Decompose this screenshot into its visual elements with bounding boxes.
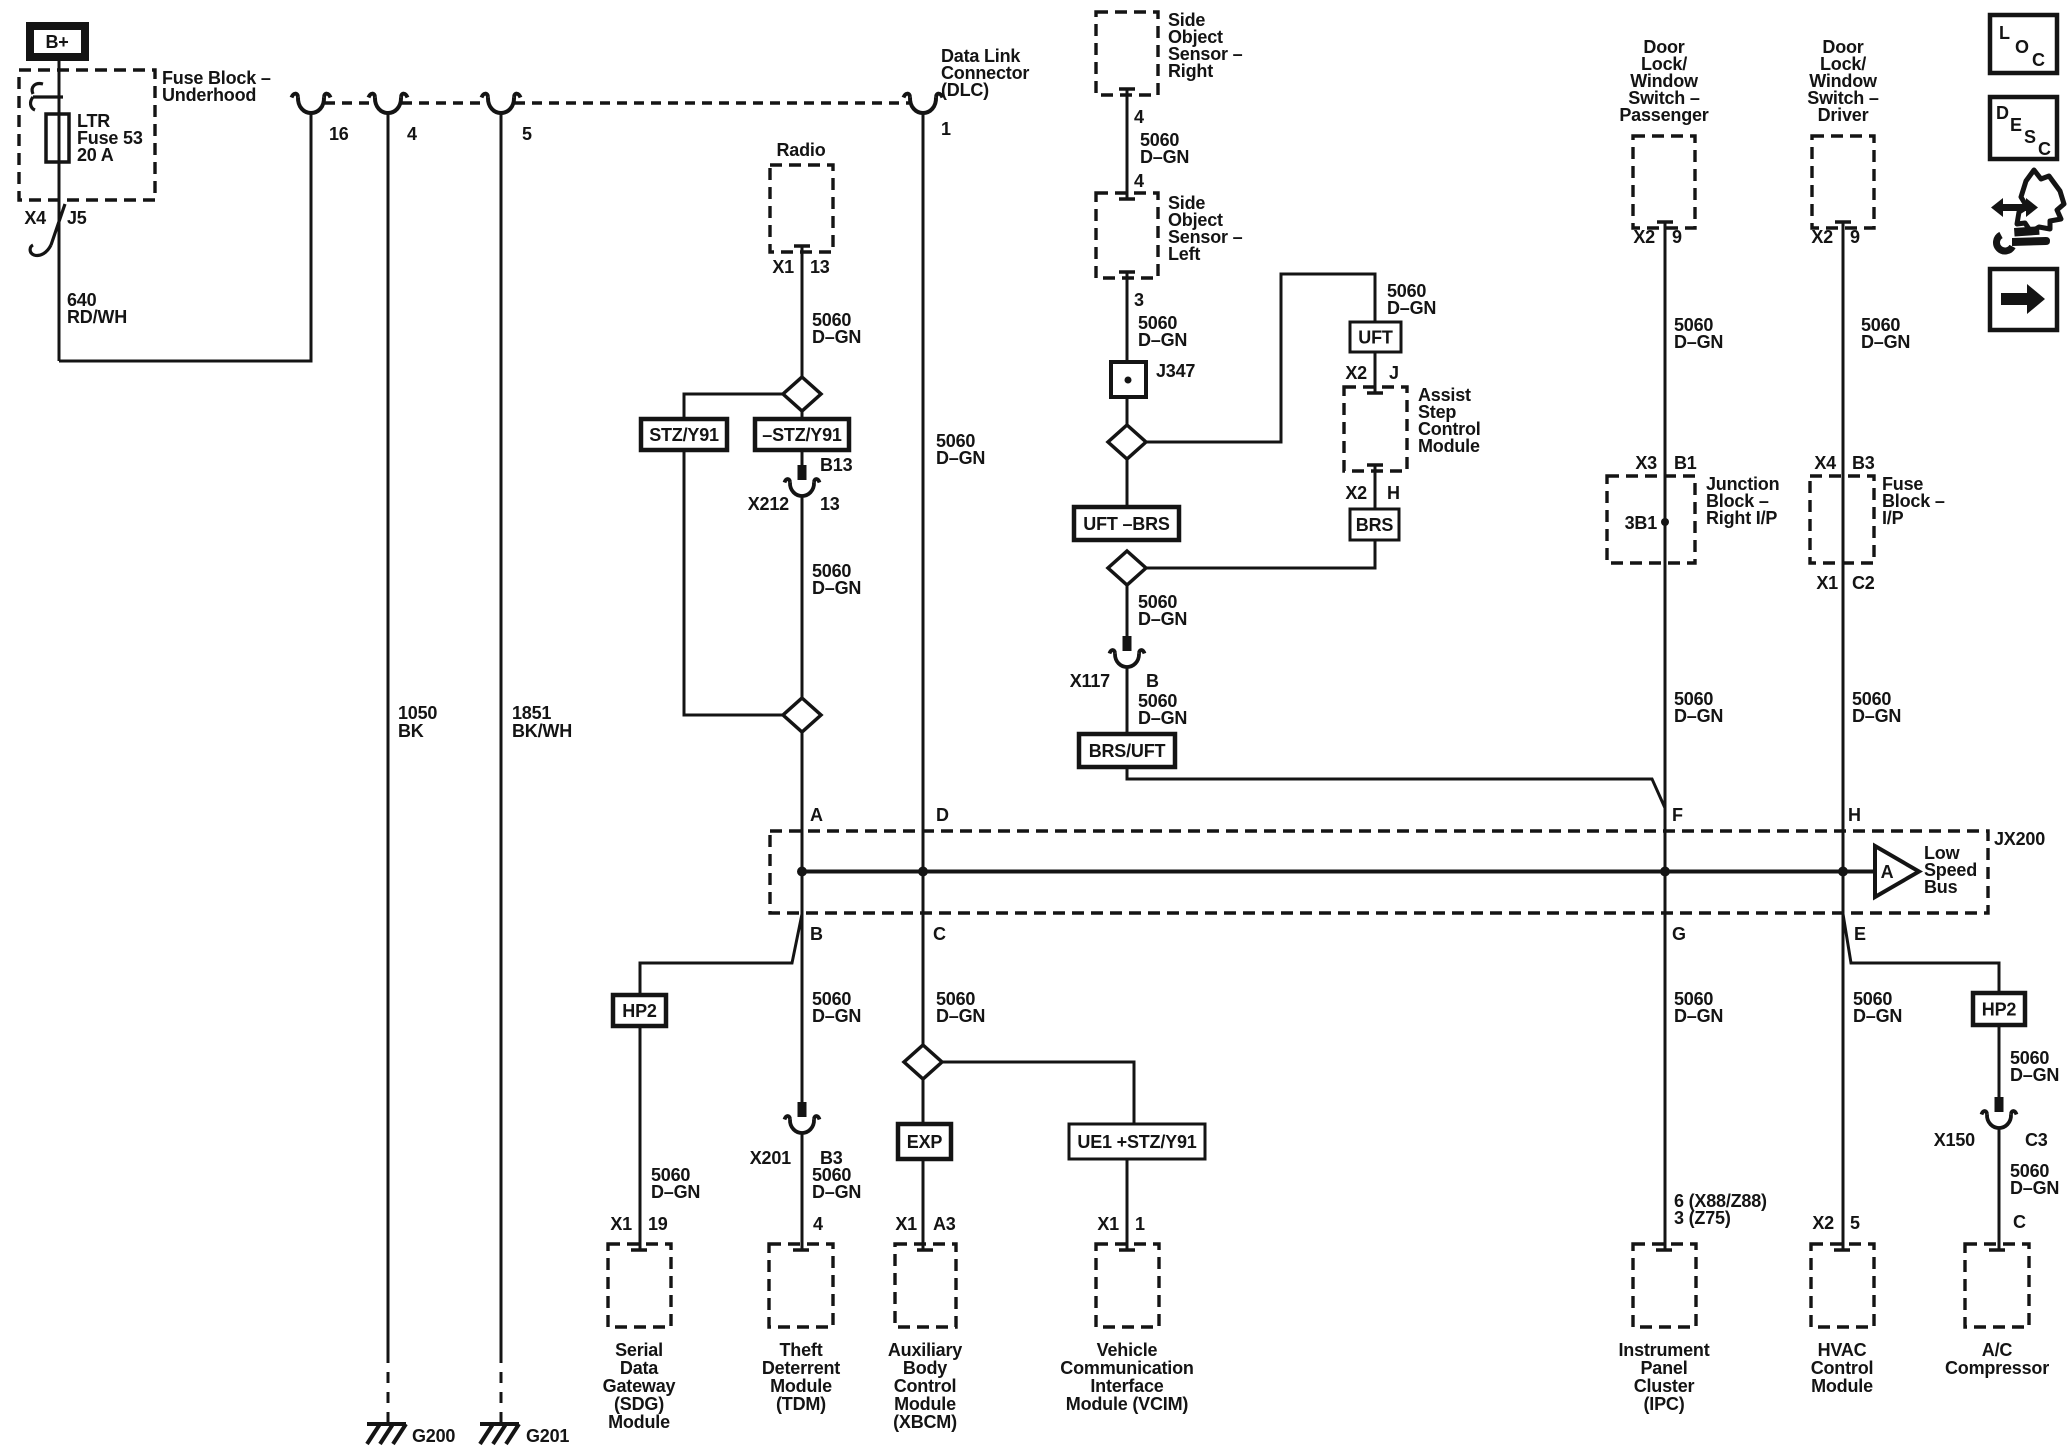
svg-text:C: C xyxy=(2013,1212,2026,1232)
svg-text:J5: J5 xyxy=(67,208,87,228)
svg-text:5: 5 xyxy=(522,124,532,144)
vehicle communication interface module (VCIM) (dashed box) xyxy=(1096,1244,1159,1327)
svg-text:Body: Body xyxy=(903,1358,947,1378)
splice pack J347 xyxy=(1111,362,1146,397)
low speed bus line xyxy=(802,870,1875,874)
auxiliary body control module (XBCM) pin terminal xyxy=(917,1248,933,1252)
wire radio X1-13 down xyxy=(801,246,804,465)
radio (dashed box) xyxy=(770,165,833,252)
svg-text:Deterrent: Deterrent xyxy=(762,1358,840,1378)
svg-text:3B1: 3B1 xyxy=(1625,513,1658,533)
wire to X117 xyxy=(1126,585,1129,636)
wire C to XBCM xyxy=(922,1079,925,1250)
net box -STZ/Y91 xyxy=(755,419,849,450)
svg-text:A/C: A/C xyxy=(1982,1340,2013,1360)
svg-text:1: 1 xyxy=(941,119,951,139)
junction dot H xyxy=(1838,867,1848,877)
svg-text:A3: A3 xyxy=(933,1214,956,1234)
net box UFT xyxy=(1350,322,1401,352)
svg-text:19: 19 xyxy=(648,1214,668,1234)
dashed harness line segment 5-DLC xyxy=(515,101,909,105)
svg-text:B: B xyxy=(1146,671,1159,691)
svg-text:UFT –BRS: UFT –BRS xyxy=(1083,514,1170,534)
svg-text:L: L xyxy=(1999,23,2010,43)
svg-text:D–GN: D–GN xyxy=(1852,706,1901,726)
net box BRS xyxy=(1350,509,1399,540)
svg-text:4: 4 xyxy=(407,124,417,144)
icon LOC box xyxy=(1990,15,2057,73)
wire BRS/UFT over to F line xyxy=(1127,767,1665,808)
svg-text:E: E xyxy=(2010,115,2022,135)
svg-text:EXP: EXP xyxy=(907,1132,943,1152)
svg-text:HVAC: HVAC xyxy=(1818,1340,1867,1360)
splice diamond C line xyxy=(904,1045,942,1079)
ground G201 xyxy=(480,1424,569,1446)
svg-text:X201: X201 xyxy=(750,1148,791,1168)
svg-text:D–GN: D–GN xyxy=(1674,1006,1723,1026)
svg-text:16: 16 xyxy=(329,124,349,144)
svg-text:X3: X3 xyxy=(1635,453,1657,473)
net box EXP xyxy=(898,1124,951,1159)
svg-text:B: B xyxy=(810,924,823,944)
svg-text:X1: X1 xyxy=(772,257,794,277)
splice diamond sensor line upper xyxy=(1108,425,1146,459)
wire BRS to diamond xyxy=(1146,540,1375,568)
svg-text:X117: X117 xyxy=(1070,671,1110,691)
svg-text:Interface: Interface xyxy=(1090,1376,1163,1396)
svg-text:H: H xyxy=(1387,483,1400,503)
instrument panel cluster (IPC) (dashed box) xyxy=(1633,1244,1696,1327)
svg-text:D–GN: D–GN xyxy=(2010,1178,2059,1198)
HVAC control module pin terminal xyxy=(1834,1248,1850,1252)
svg-text:3 (Z75): 3 (Z75) xyxy=(1674,1208,1731,1228)
svg-text:X2: X2 xyxy=(1812,1213,1834,1233)
svg-text:B+: B+ xyxy=(45,32,68,52)
svg-text:X1: X1 xyxy=(610,1214,632,1234)
svg-text:Data: Data xyxy=(620,1358,659,1378)
svg-text:1050: 1050 xyxy=(398,703,437,723)
dashed harness line segment 4-5 xyxy=(402,101,487,105)
svg-text:A: A xyxy=(1881,862,1894,882)
connector X117 pin B xyxy=(1110,636,1145,667)
svg-text:1851: 1851 xyxy=(512,703,551,723)
side object sensor - right (dashed box) xyxy=(1096,12,1158,95)
theft deterrent module (TDM) (dashed box) xyxy=(769,1244,833,1327)
svg-text:D–GN: D–GN xyxy=(1138,609,1187,629)
svg-text:G200: G200 xyxy=(412,1426,455,1446)
svg-text:UFT: UFT xyxy=(1358,328,1393,348)
wire X150 to A/C compressor xyxy=(1998,1128,2001,1250)
passenger switch pin terminal xyxy=(1657,220,1673,224)
svg-text:Module: Module xyxy=(608,1412,670,1432)
svg-text:(IPC): (IPC) xyxy=(1644,1394,1685,1414)
A/C compressor (dashed box) xyxy=(1965,1244,2029,1327)
wire B+ feed down from B+ through fuse xyxy=(58,61,61,361)
svg-text:A: A xyxy=(810,805,823,825)
wire H-E main (driver to HVAC) xyxy=(1842,222,1845,1250)
theft deterrent module (TDM) pin terminal xyxy=(793,1248,809,1252)
splice diamond sensor line lower xyxy=(1108,551,1146,585)
side object sensor - left (dashed box) xyxy=(1096,193,1158,278)
svg-text:D–GN: D–GN xyxy=(812,578,861,598)
junction block - right I/P (dashed box) xyxy=(1607,476,1695,563)
wire HP2 to SDG xyxy=(639,1026,642,1250)
svg-text:C: C xyxy=(2038,139,2051,159)
svg-text:Left: Left xyxy=(1168,244,1200,264)
svg-text:Cluster: Cluster xyxy=(1634,1376,1695,1396)
svg-text:–STZ/Y91: –STZ/Y91 xyxy=(762,425,842,445)
icon arrow box xyxy=(1990,269,2057,330)
svg-text:X2: X2 xyxy=(1811,227,1833,247)
wire A-B main down to X201 xyxy=(801,732,804,1102)
SOS right pin terminal xyxy=(1119,87,1135,91)
instrument panel cluster (IPC) pin terminal xyxy=(1656,1248,1672,1252)
svg-text:D–GN: D–GN xyxy=(812,1006,861,1026)
svg-text:D–GN: D–GN xyxy=(1138,708,1187,728)
wire to BRS/UFT xyxy=(1126,667,1129,734)
svg-text:C: C xyxy=(933,924,946,944)
svg-text:20 A: 20 A xyxy=(77,145,114,165)
dashed harness line segment 16-4 xyxy=(325,101,374,105)
svg-text:X212: X212 xyxy=(748,494,789,514)
junction dot 3B1 xyxy=(1661,518,1669,526)
net box UE1 +STZ/Y91 xyxy=(1069,1124,1205,1159)
svg-text:Control: Control xyxy=(1811,1358,1874,1378)
fuse LTR Fuse 53 20 A (body) xyxy=(46,114,69,162)
junction dot A xyxy=(797,867,807,877)
svg-text:BRS/UFT: BRS/UFT xyxy=(1089,741,1166,761)
assist module bottom pin terminal xyxy=(1367,463,1383,467)
svg-text:Vehicle: Vehicle xyxy=(1097,1340,1158,1360)
svg-text:J347: J347 xyxy=(1156,361,1195,381)
wire UE1 to VCIM xyxy=(1126,1159,1129,1250)
svg-text:Panel: Panel xyxy=(1640,1358,1687,1378)
wire STZ/Y91 left branch xyxy=(684,394,784,715)
svg-text:C3: C3 xyxy=(2025,1130,2048,1150)
svg-text:HP2: HP2 xyxy=(622,1001,657,1021)
bus arrow triangle A xyxy=(1875,846,1919,897)
svg-text:G: G xyxy=(1672,924,1686,944)
wire 5060 D-GN below X212 xyxy=(801,496,804,698)
svg-text:C2: C2 xyxy=(1852,573,1875,593)
svg-text:J: J xyxy=(1389,363,1399,383)
door lock/window switch - driver (dashed box) xyxy=(1812,136,1874,228)
svg-text:9: 9 xyxy=(1850,227,1860,247)
svg-text:Theft: Theft xyxy=(780,1340,823,1360)
svg-text:1: 1 xyxy=(1135,1214,1145,1234)
svg-text:Right: Right xyxy=(1168,61,1213,81)
svg-text:UE1 +STZ/Y91: UE1 +STZ/Y91 xyxy=(1077,1132,1196,1152)
svg-text:D–GN: D–GN xyxy=(2010,1065,2059,1085)
svg-text:4: 4 xyxy=(1134,107,1144,127)
wire HP2 right down xyxy=(1998,1025,2001,1097)
HVAC control module (dashed box) xyxy=(1811,1244,1874,1327)
svg-text:X4: X4 xyxy=(24,208,46,228)
fuse clip symbol (top) xyxy=(31,84,63,110)
svg-text:Gateway: Gateway xyxy=(603,1376,676,1396)
fuse block - underhood (dashed box) xyxy=(19,70,155,200)
svg-text:4: 4 xyxy=(1134,171,1144,191)
SOS left top pin terminal xyxy=(1119,197,1135,201)
svg-text:Module: Module xyxy=(894,1394,956,1414)
svg-text:C: C xyxy=(2032,50,2045,70)
svg-text:X150: X150 xyxy=(1934,1130,1975,1150)
A/C compressor pin terminal xyxy=(1989,1248,2005,1252)
door lock/window switch - passenger (dashed box) xyxy=(1633,136,1695,228)
wire UFT to assist step module xyxy=(1374,352,1377,393)
svg-text:D–GN: D–GN xyxy=(812,327,861,347)
svg-text:X1: X1 xyxy=(895,1214,917,1234)
svg-text:Serial: Serial xyxy=(615,1340,663,1360)
wire 1851 BK/WH dashed tail xyxy=(500,1352,503,1424)
svg-text:Module: Module xyxy=(1418,436,1480,456)
svg-text:G201: G201 xyxy=(526,1426,569,1446)
wire DLC pin1 down (D-C) xyxy=(922,113,925,1045)
net box UFT-BRS xyxy=(1074,507,1179,540)
svg-text:Driver: Driver xyxy=(1818,105,1869,125)
wire B branch to HP2 left xyxy=(640,914,802,995)
assist step control module (dashed box) xyxy=(1344,387,1407,471)
svg-text:X2: X2 xyxy=(1345,483,1367,503)
net box HP2 right xyxy=(1973,993,2025,1025)
svg-text:I/P: I/P xyxy=(1882,508,1904,528)
junction dot D xyxy=(918,867,928,877)
wire branch to UFT xyxy=(1146,274,1375,442)
connector X150 pin C3 xyxy=(1982,1097,2017,1128)
svg-text:X2: X2 xyxy=(1633,227,1655,247)
svg-text:D–GN: D–GN xyxy=(1138,330,1187,350)
svg-text:HP2: HP2 xyxy=(1982,1000,2017,1020)
svg-text:(XBCM): (XBCM) xyxy=(893,1412,957,1432)
vehicle communication interface module (VCIM) pin terminal xyxy=(1119,1248,1135,1252)
connector X212 pin 13 xyxy=(785,465,820,496)
svg-text:Right I/P: Right I/P xyxy=(1706,508,1777,528)
svg-text:B13: B13 xyxy=(820,455,853,475)
wire 1050 BK dashed tail xyxy=(387,1352,390,1424)
driver switch pin terminal xyxy=(1835,220,1851,224)
svg-text:S: S xyxy=(2024,127,2036,147)
svg-text:D–GN: D–GN xyxy=(1853,1006,1902,1026)
svg-text:X4: X4 xyxy=(1814,453,1836,473)
icon DESC box xyxy=(1990,97,2057,159)
svg-text:Instrument: Instrument xyxy=(1618,1340,1709,1360)
svg-text:Passenger: Passenger xyxy=(1619,105,1708,125)
svg-text:D–GN: D–GN xyxy=(936,1006,985,1026)
wire SOS right pin4 to left pin4 xyxy=(1126,89,1129,199)
svg-text:BK: BK xyxy=(398,721,424,741)
wire X201 to TDM xyxy=(801,1133,804,1250)
svg-text:Communication: Communication xyxy=(1060,1358,1193,1378)
wire F-G main (passenger to IPC) xyxy=(1664,222,1667,1250)
svg-text:13: 13 xyxy=(810,257,830,277)
svg-text:B3: B3 xyxy=(1852,453,1875,473)
SOS left bottom pin terminal xyxy=(1119,270,1135,274)
svg-text:D–GN: D–GN xyxy=(1674,332,1723,352)
battery B+ symbol xyxy=(30,26,85,57)
svg-text:D–GN: D–GN xyxy=(1387,298,1436,318)
svg-text:RD/WH: RD/WH xyxy=(67,307,127,327)
radio pin terminal xyxy=(794,244,810,248)
svg-text:D: D xyxy=(1996,103,2009,123)
svg-text:X2: X2 xyxy=(1345,363,1367,383)
wire 640 RD/WH to cup 16 xyxy=(59,113,311,361)
svg-text:F: F xyxy=(1672,805,1683,825)
svg-text:3: 3 xyxy=(1134,290,1144,310)
svg-text:D–GN: D–GN xyxy=(1861,332,1910,352)
svg-text:D–GN: D–GN xyxy=(651,1182,700,1202)
svg-text:X1: X1 xyxy=(1816,573,1838,593)
wire assist module to BRS xyxy=(1374,465,1377,509)
cup connector pin 16 xyxy=(292,94,331,113)
svg-text:Auxiliary: Auxiliary xyxy=(888,1340,962,1360)
svg-text:BRS: BRS xyxy=(1356,515,1394,535)
svg-text:(DLC): (DLC) xyxy=(941,80,989,100)
assist module top pin terminal xyxy=(1367,391,1383,395)
svg-text:X1: X1 xyxy=(1097,1214,1119,1234)
svg-text:Control: Control xyxy=(894,1376,957,1396)
svg-text:Module: Module xyxy=(1811,1376,1873,1396)
svg-text:STZ/Y91: STZ/Y91 xyxy=(649,425,719,445)
svg-text:Radio: Radio xyxy=(776,140,825,160)
svg-text:4: 4 xyxy=(813,1214,823,1234)
svg-text:D: D xyxy=(936,805,949,825)
connector JX200 (dashed box) xyxy=(770,831,1988,913)
svg-text:H: H xyxy=(1848,805,1861,825)
wire SOS left pin3 down xyxy=(1126,272,1129,362)
svg-text:D–GN: D–GN xyxy=(936,448,985,468)
svg-text:E: E xyxy=(1854,924,1866,944)
svg-text:JX200: JX200 xyxy=(1994,829,2045,849)
svg-text:D–GN: D–GN xyxy=(1140,147,1189,167)
svg-text:(TDM): (TDM) xyxy=(776,1394,826,1414)
fuse block - I/P (dashed box) xyxy=(1810,476,1874,563)
svg-text:(SDG): (SDG) xyxy=(614,1394,664,1414)
wire E branch to HP2 right xyxy=(1843,914,1999,993)
svg-text:9: 9 xyxy=(1672,227,1682,247)
wire to UFT-BRS box xyxy=(1126,459,1129,507)
net box STZ/Y91 xyxy=(641,419,727,450)
connector X201 pin B3 xyxy=(785,1102,820,1133)
splice diamond lower radio line xyxy=(783,698,821,732)
auxiliary body control module (XBCM) (dashed box) xyxy=(895,1244,956,1327)
splice diamond radio line xyxy=(783,377,821,411)
svg-text:5: 5 xyxy=(1850,1213,1860,1233)
serial data gateway (SDG) module (dashed box) xyxy=(608,1244,671,1327)
svg-text:Module: Module xyxy=(770,1376,832,1396)
connector X4 J5 (inline symbol) xyxy=(30,204,65,256)
svg-text:13: 13 xyxy=(820,494,840,514)
svg-text:Underhood: Underhood xyxy=(162,85,256,105)
icon wrench with exchange arrows xyxy=(1991,170,2064,251)
net box BRS/UFT xyxy=(1079,734,1175,767)
ground G200 xyxy=(367,1424,455,1446)
wire below J347 xyxy=(1126,397,1129,425)
svg-text:O: O xyxy=(2015,37,2029,57)
svg-text:BK/WH: BK/WH xyxy=(512,721,572,741)
wire branch to UE1 xyxy=(942,1062,1134,1124)
svg-text:Compressor: Compressor xyxy=(1945,1358,2049,1378)
svg-text:Module (VCIM): Module (VCIM) xyxy=(1066,1394,1189,1414)
svg-text:B1: B1 xyxy=(1674,453,1697,473)
serial data gateway (SDG) module pin terminal xyxy=(631,1248,647,1252)
cup connector pin 4 xyxy=(369,94,408,113)
wire 1851 BK/WH vertical xyxy=(500,113,503,1352)
svg-text:D–GN: D–GN xyxy=(1674,706,1723,726)
svg-text:D–GN: D–GN xyxy=(812,1182,861,1202)
net box HP2 left xyxy=(613,995,666,1026)
cup connector pin 5 xyxy=(482,94,521,113)
cup connector DLC pin 1 xyxy=(904,94,943,113)
svg-text:Bus: Bus xyxy=(1924,877,1958,897)
junction dot F xyxy=(1660,867,1670,877)
wire 1050 BK vertical xyxy=(387,113,390,1352)
